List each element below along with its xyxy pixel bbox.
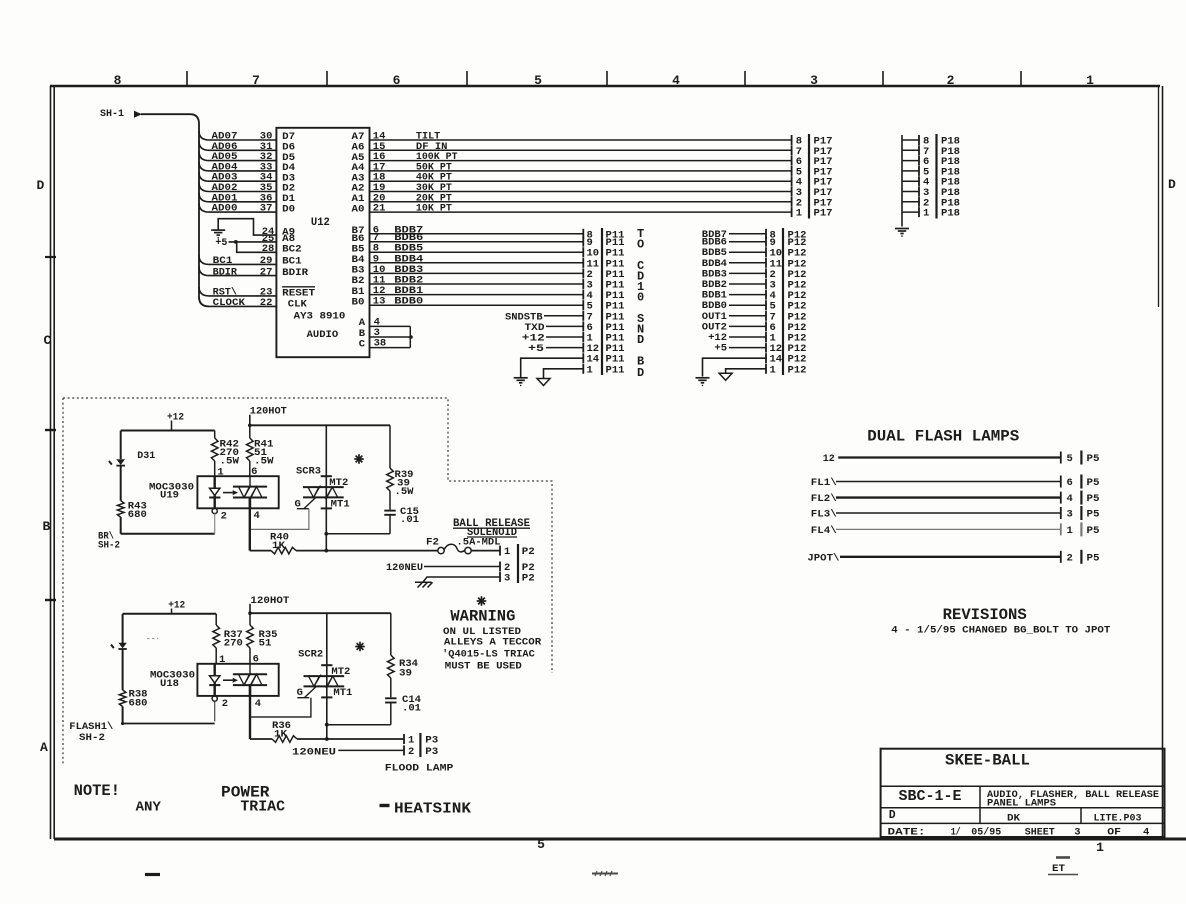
svg-text:SCR2: SCR2 — [298, 648, 323, 660]
svg-text:B: B — [43, 519, 51, 534]
svg-text:4: 4 — [1067, 493, 1073, 505]
svg-text:BDIR: BDIR — [282, 267, 309, 279]
asterisk above WARNING — [477, 596, 487, 606]
svg-text:12: 12 — [823, 453, 835, 465]
svg-text:1: 1 — [217, 467, 223, 479]
wire 120HOT drop lower — [249, 604, 251, 613]
svg-text:BC2: BC2 — [282, 244, 302, 256]
diode D31 — [116, 459, 125, 465]
fold mark bottom left — [145, 873, 160, 876]
svg-text:+5: +5 — [714, 343, 727, 355]
svg-text:U12: U12 — [311, 217, 330, 229]
connector P17 — [792, 134, 833, 220]
sheet border left (double line) — [50, 86, 52, 839]
wire R38 to bottom — [122, 707, 124, 724]
wire 120NEU to P2 pin 2 — [424, 566, 500, 568]
sheet border bottom — [54, 838, 1186, 841]
svg-text:A: A — [40, 740, 48, 755]
heatsink asterisk near SCR3 — [354, 454, 364, 464]
svg-text:FL2\: FL2\ — [811, 493, 837, 505]
svg-text:P2: P2 — [522, 546, 535, 558]
svg-text:MT1: MT1 — [331, 499, 350, 511]
wire 20K PT U12 pin 20 to P17 — [370, 201, 792, 203]
wire BC1 from bus to U12 — [199, 255, 276, 264]
svg-text:1: 1 — [923, 208, 929, 220]
resistor R34 — [390, 613, 392, 655]
svg-text:2: 2 — [1067, 552, 1073, 564]
svg-text:4: 4 — [1143, 826, 1149, 838]
svg-text:CLK: CLK — [288, 299, 308, 311]
svg-text:P2: P2 — [522, 573, 535, 585]
wire 120HOT drop upper — [249, 415, 251, 426]
fuse F2 .5A-MDL — [438, 547, 444, 553]
vertical note TO CD10 SND BD — [637, 227, 644, 380]
wire U12 AUDIO A pin 4 to bracket — [370, 325, 411, 327]
svg-text:LITE.P03: LITE.P03 — [1094, 813, 1142, 825]
svg-text:120NEU: 120NEU — [292, 747, 336, 759]
svg-text:AY3 8910: AY3 8910 — [294, 311, 346, 323]
svg-text:G: G — [295, 499, 301, 511]
wire U12 AUDIO B pin 3 to bracket — [370, 336, 412, 338]
svg-text:.01: .01 — [400, 514, 419, 526]
svg-text:FL1\: FL1\ — [811, 477, 837, 489]
wire TILT U12 pin 14 to P17 — [370, 139, 792, 141]
svg-text:05/95: 05/95 — [971, 826, 1001, 838]
wire BDB6 U12 pin 7 to P11 — [370, 241, 584, 243]
svg-text:+12: +12 — [167, 412, 184, 424]
wire AD06 from bus to U12 pin 31 — [199, 141, 276, 150]
svg-text:2: 2 — [947, 73, 955, 88]
svg-text:B0: B0 — [352, 296, 365, 308]
wire P2 pin 3 to earth ground — [423, 577, 500, 582]
svg-text:PANEL LAMPS: PANEL LAMPS — [987, 798, 1056, 810]
resistor R43 — [117, 501, 124, 517]
svg-text:4: 4 — [254, 510, 260, 522]
wire +5 to U12 pin 25 — [229, 241, 277, 243]
svg-text:DK: DK — [1007, 813, 1021, 825]
wire AD03 from bus to U12 pin 34 — [199, 172, 276, 181]
wire D31 to R43 — [120, 466, 122, 501]
diode D32 (faded) — [118, 643, 126, 649]
svg-text:.5W: .5W — [395, 486, 415, 498]
sheet border right — [1162, 86, 1164, 839]
wire MOC pin 4 down to load rail — [249, 498, 251, 551]
opto-triac U18 MOC3030 — [197, 664, 278, 696]
wire SH-1 bus arrow — [134, 111, 142, 118]
svg-text:ET: ET — [1052, 864, 1065, 875]
svg-text:37: 37 — [260, 203, 273, 215]
ruler tick marks top — [186, 71, 188, 86]
connector P12 — [766, 228, 807, 376]
svg-text:P11: P11 — [606, 364, 625, 376]
svg-text:P5: P5 — [1087, 525, 1100, 537]
svg-text:4 - 1/5/95 CHANGED BG_BOLT TO: 4 - 1/5/95 CHANGED BG_BOLT TO JPOT — [891, 625, 1110, 637]
svg-text:C: C — [44, 333, 52, 348]
svg-text:P5: P5 — [1087, 552, 1100, 564]
svg-text:120HOT: 120HOT — [250, 595, 289, 607]
svg-text:1: 1 — [587, 364, 593, 376]
svg-text:P18: P18 — [941, 208, 960, 220]
wire 120NEU to P3 pin 2 — [338, 749, 404, 751]
svg-text:D0: D0 — [282, 203, 295, 215]
svg-text:MT2: MT2 — [331, 666, 350, 678]
svg-text:F2: F2 — [426, 537, 439, 549]
dashed boundary around triac circuits — [63, 398, 552, 764]
wire AD05 from bus to U12 pin 32 — [199, 152, 276, 161]
svg-text:5: 5 — [537, 837, 545, 852]
title block frame — [881, 749, 1165, 837]
svg-text:FLOOD LAMP: FLOOD LAMP — [385, 763, 454, 775]
svg-text:680: 680 — [128, 509, 147, 521]
svg-text:BDIR: BDIR — [213, 266, 238, 278]
wire audio bracket vertical — [409, 326, 411, 347]
svg-text:8: 8 — [114, 73, 122, 88]
capacitor C14 — [385, 697, 396, 699]
wire MOC U18 pin 4 down to load rail — [249, 685, 251, 739]
wire AD04 from bus to U12 pin 33 — [199, 162, 276, 171]
svg-text:U18: U18 — [160, 678, 179, 690]
svg-text:A0: A0 — [352, 203, 365, 215]
wire AD02 from bus to U12 pin 35 — [199, 183, 276, 192]
resistor R39 — [389, 425, 391, 468]
svg-text:WARNING: WARNING — [450, 607, 515, 625]
svg-text:2: 2 — [408, 746, 414, 758]
wire R43 to bottom — [120, 517, 122, 534]
svg-text:O: O — [637, 238, 644, 252]
ground under P18 — [895, 229, 909, 237]
svg-text:1K: 1K — [274, 729, 288, 741]
underline panel lamps — [987, 807, 1164, 809]
svg-text:7: 7 — [252, 73, 260, 88]
svg-text:+5: +5 — [215, 237, 227, 249]
connector P3 — [404, 733, 438, 758]
wire +5 branch to U12 pin 28 — [237, 242, 277, 252]
wire BDB5 U12 pin 8 to P11 — [370, 251, 584, 253]
svg-text:5: 5 — [534, 73, 542, 88]
svg-text:RESET: RESET — [282, 287, 315, 299]
svg-text:120NEU: 120NEU — [386, 562, 423, 574]
svg-text:DATE:: DATE: — [888, 826, 926, 838]
opto-triac U19 MOC3030 — [197, 476, 278, 508]
svg-text:D: D — [637, 366, 644, 380]
resistor R40 in load rail — [250, 550, 271, 552]
svg-text:3: 3 — [1067, 509, 1073, 521]
wire D32 to R38 — [122, 649, 124, 690]
svg-text:FL4\: FL4\ — [811, 525, 837, 537]
resistor R38 — [119, 690, 126, 707]
wire upper-left loop vertical — [120, 431, 122, 460]
connector P2 — [500, 544, 535, 585]
polarity mark near D31 — [109, 461, 112, 465]
wire SCR2 MT2-MT1 column — [326, 613, 328, 739]
wire BDB2 U12 pin 11 to P11 — [370, 283, 584, 285]
svg-text:ANY: ANY — [136, 800, 162, 816]
wire P12 pin 14 to ground — [703, 358, 767, 376]
svg-text:P17: P17 — [814, 208, 833, 220]
ground under pin 24 — [211, 230, 225, 238]
svg-text:C: C — [359, 338, 366, 350]
wire BDIR from bus to U12 — [199, 267, 276, 276]
svg-text:NOTE!: NOTE! — [74, 782, 120, 800]
wire AD01 from bus to U12 pin 36 — [199, 193, 276, 202]
svg-text:1: 1 — [219, 654, 225, 666]
wire 40K PT U12 pin 18 to P17 — [370, 180, 792, 182]
polarity mark near D32 — [111, 645, 114, 649]
wire CLOCK from bus to U12 — [199, 297, 276, 306]
wire SCR3 MT2-MT1 column — [325, 425, 327, 550]
connector P5 pin 6 — [1060, 476, 1062, 488]
svg-text:FL3\: FL3\ — [811, 509, 837, 521]
svg-text:SH-2: SH-2 — [79, 732, 105, 744]
wire +12 stub lower — [171, 609, 173, 614]
heatsink asterisk near SCR2 — [355, 642, 365, 652]
svg-text:39: 39 — [399, 668, 412, 680]
svg-text:P5: P5 — [1087, 493, 1100, 505]
svg-text:CLOCK: CLOCK — [213, 297, 246, 309]
svg-text:REVISIONS: REVISIONS — [943, 606, 1027, 624]
wire AD00 from bus to U12 pin 37 — [199, 203, 276, 212]
wire 120HOT rail upper — [250, 424, 390, 426]
wire SCR2 gate to MOC pin 4 node — [250, 698, 311, 717]
svg-text:29: 29 — [260, 255, 273, 267]
svg-text:D: D — [637, 333, 644, 347]
svg-text:5: 5 — [1067, 453, 1073, 465]
svg-text:10K PT: 10K PT — [416, 203, 452, 215]
wire P11 pin 14 to ground — [521, 358, 584, 377]
wire SCR3 gate to MOC pin 4 node — [250, 509, 309, 530]
wire 10K PT U12 pin 21 to P17 — [370, 211, 792, 213]
svg-text:SH-1: SH-1 — [100, 108, 124, 120]
left margin zone ticks — [45, 256, 56, 258]
wire U12 AUDIO C pin 38 to bracket — [370, 347, 411, 349]
chassis ground under P11 pin 1 — [537, 379, 550, 386]
svg-text:D: D — [1168, 177, 1176, 192]
svg-text:27: 27 — [260, 266, 273, 278]
svg-text:P5: P5 — [1087, 509, 1100, 521]
wire C14 to MT1 node — [390, 703, 392, 725]
wire BDB3 U12 pin 10 to P11 — [370, 272, 584, 274]
wire DF_IN U12 pin 15 to P17 — [370, 149, 792, 151]
svg-text:SKEE-BALL: SKEE-BALL — [945, 751, 1030, 769]
wire +12 stub upper — [171, 421, 173, 431]
wire BDB0 U12 pin 13 to P11 — [370, 304, 584, 306]
IC U12 AY3-8910 body — [276, 128, 369, 357]
svg-text:AD00: AD00 — [212, 203, 238, 215]
chassis ground under P12 pin 1 — [719, 373, 732, 380]
svg-text:680: 680 — [129, 698, 148, 710]
fold mark ET — [1056, 856, 1070, 859]
svg-text:6: 6 — [253, 654, 259, 666]
connector P11 — [583, 228, 624, 376]
svg-text:G: G — [297, 687, 303, 699]
connector P5 pin 5 — [1060, 452, 1062, 464]
fold mark bottom middle — [592, 873, 618, 875]
svg-text:38: 38 — [374, 338, 387, 350]
wire upper-left loop top — [121, 430, 215, 432]
svg-text:AUDIO: AUDIO — [307, 329, 339, 341]
wire 100K PT U12 pin 16 to P17 — [370, 160, 792, 162]
wire RST\ from bus to U12 — [199, 287, 276, 296]
svg-text:3: 3 — [810, 73, 818, 88]
wire P12 pin 1 to chassis ground — [726, 369, 766, 373]
title block divider — [881, 785, 1165, 787]
wire 120HOT rail lower — [250, 612, 391, 614]
svg-text:HEATSINK: HEATSINK — [394, 801, 471, 818]
wire BDB1 U12 pin 12 to P11 — [370, 294, 584, 296]
wire snubber return to SCR2 MT1 — [327, 724, 391, 726]
wire lower-left loop vertical — [122, 614, 124, 643]
svg-text:1: 1 — [1096, 840, 1104, 855]
capacitor C15 — [384, 510, 395, 512]
svg-text:1: 1 — [1067, 525, 1073, 537]
wire upper-left loop bottom — [121, 533, 215, 535]
svg-text:DUAL FLASH LAMPS: DUAL FLASH LAMPS — [867, 428, 1019, 446]
svg-text:BC1: BC1 — [282, 256, 302, 268]
svg-text:1/: 1/ — [951, 826, 961, 838]
svg-text:P3: P3 — [425, 746, 438, 758]
wire 30K PT U12 pin 19 to P17 — [370, 191, 792, 193]
svg-text:+5: +5 — [528, 343, 544, 355]
svg-text:P12: P12 — [788, 364, 807, 376]
resistor R42 — [214, 431, 216, 439]
connector P5 pin 2 — [1060, 551, 1062, 563]
wire C15 to MT1 node — [389, 515, 391, 534]
svg-text:28: 28 — [262, 243, 275, 255]
svg-text:120HOT: 120HOT — [250, 406, 287, 418]
wire snubber return to SCR3 MT1 — [326, 533, 390, 535]
ground under P12 pin 14 — [696, 378, 710, 386]
svg-text:BC1: BC1 — [213, 255, 233, 267]
wire BDB4 U12 pin 9 to P11 — [370, 262, 584, 264]
wire BDB7 U12 pin 6 to P11 — [370, 233, 584, 235]
faded designator D32 — [147, 638, 158, 640]
svg-text:SCR3: SCR3 — [296, 466, 321, 478]
svg-text:22: 22 — [260, 297, 273, 309]
wire lower-left loop top — [123, 613, 217, 615]
wire SH-1 bus horizontal and vertical — [141, 114, 209, 306]
svg-text:1: 1 — [770, 364, 776, 376]
svg-text:MUST BE USED: MUST BE USED — [445, 661, 522, 673]
wire 50K PT U12 pin 17 to P17 — [370, 170, 792, 172]
ground under P11 pin 14 — [514, 378, 528, 386]
svg-text:6: 6 — [251, 466, 257, 478]
svg-text:BDB0: BDB0 — [394, 296, 423, 308]
svg-text:.01: .01 — [402, 703, 421, 715]
wire lower-left loop bottom — [123, 723, 215, 725]
title block divider vertical — [979, 786, 981, 823]
svg-text:TRIAC: TRIAC — [240, 799, 285, 816]
svg-text:P5: P5 — [1087, 453, 1100, 465]
svg-text:4: 4 — [672, 73, 680, 88]
svg-text:0: 0 — [637, 291, 644, 305]
wire U12 pin 24 to ground — [218, 219, 276, 235]
svg-text:U19: U19 — [160, 490, 179, 502]
svg-text:1K: 1K — [272, 540, 286, 552]
svg-text:1: 1 — [408, 735, 414, 747]
title block divider vertical 2 — [1080, 808, 1082, 824]
svg-text:13: 13 — [373, 296, 386, 308]
svg-text:'Q4015-LS TRIAC: 'Q4015-LS TRIAC — [442, 649, 535, 661]
svg-text:SHEET: SHEET — [1025, 826, 1055, 838]
svg-text:ALLEYS A TECCOR: ALLEYS A TECCOR — [444, 636, 542, 648]
svg-text:3: 3 — [1074, 826, 1080, 838]
svg-text:1: 1 — [1086, 73, 1094, 88]
resistor R41 — [249, 425, 251, 438]
svg-text:P3: P3 — [425, 735, 438, 747]
connector P5 pin 1 — [1060, 523, 1062, 535]
svg-text:3: 3 — [504, 573, 510, 585]
svg-text:270: 270 — [224, 638, 243, 650]
earth ground symbol — [415, 582, 433, 587]
svg-text:D: D — [889, 809, 896, 822]
svg-text:P5: P5 — [1087, 477, 1100, 489]
resistor R35 — [249, 613, 251, 625]
svg-text:2: 2 — [222, 698, 228, 710]
svg-text:SBC-1-E: SBC-1-E — [899, 788, 962, 805]
svg-text:D: D — [37, 178, 45, 193]
svg-text:1: 1 — [504, 546, 510, 558]
svg-text:2: 2 — [221, 510, 227, 522]
resistor R36 in load rail — [250, 738, 272, 740]
svg-text:JPOT\: JPOT\ — [807, 552, 839, 564]
title block divider — [881, 822, 1165, 824]
svg-text:OF: OF — [1107, 826, 1121, 838]
wire AD07 from bus to U12 pin 30 — [199, 131, 276, 140]
title block divider — [881, 807, 1165, 809]
svg-text:D31: D31 — [137, 450, 155, 462]
note - HEATSINK — [380, 804, 390, 807]
resistor R37 — [215, 614, 217, 625]
svg-text:SH-2: SH-2 — [98, 540, 120, 552]
connector P5 pin 4 — [1060, 492, 1062, 504]
svg-text:MT1: MT1 — [333, 687, 352, 699]
wire P11 pin 1 to chassis ground — [544, 369, 584, 378]
svg-text:MT2: MT2 — [329, 477, 348, 489]
svg-text:51: 51 — [259, 638, 272, 650]
svg-text:6: 6 — [393, 73, 401, 88]
svg-text:4: 4 — [255, 698, 261, 710]
connector P18 with grounded ladder — [902, 134, 960, 227]
svg-text:1: 1 — [796, 208, 802, 220]
svg-text:21: 21 — [373, 203, 386, 215]
connector P5 pin 3 — [1060, 507, 1062, 519]
svg-text:6: 6 — [1067, 477, 1073, 489]
sheet border frame top ruler line — [50, 85, 1160, 87]
